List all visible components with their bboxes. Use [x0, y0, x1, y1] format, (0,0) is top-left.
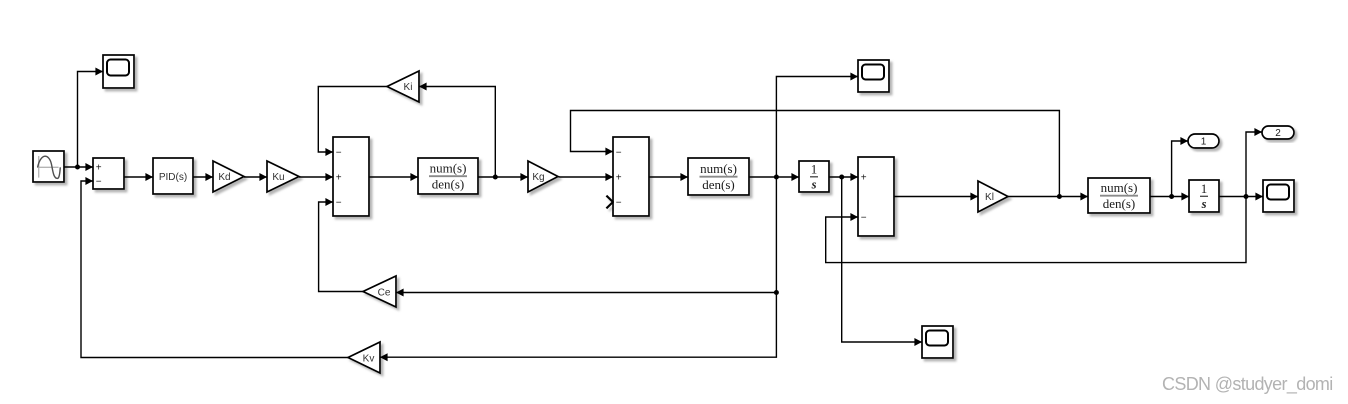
- junction node Kl output: [1057, 194, 1062, 199]
- scope Scope2: [858, 60, 889, 92]
- svg-text:−: −: [616, 148, 622, 159]
- wire Kg to Sum3 plus: [558, 173, 613, 181]
- junction node Int2 output: [1244, 194, 1249, 199]
- wire Int1 junction down to Scope4: [842, 177, 922, 346]
- svg-text:−: −: [861, 213, 867, 224]
- svg-text:CSDN @studyer_domi: CSDN @studyer_domi: [1162, 374, 1333, 395]
- wire Int2 to Scope3: [1219, 193, 1263, 201]
- integrator 1/s Int1: [799, 161, 829, 192]
- watermark text: [1162, 374, 1333, 395]
- svg-text:num(s): num(s): [1101, 180, 1138, 195]
- svg-text:+: +: [96, 163, 102, 174]
- svg-text:1: 1: [1201, 136, 1207, 147]
- svg-text:s: s: [811, 177, 817, 191]
- wire Sum1 to PID: [124, 173, 153, 181]
- wire G3 junction up to outport 1: [1172, 137, 1188, 197]
- junction node G2 output: [774, 175, 779, 180]
- svg-text:num(s): num(s): [430, 161, 467, 176]
- wire G1 to Kg: [478, 173, 528, 181]
- wire G2 to Int1: [749, 173, 799, 181]
- wire Sum2 to G1: [369, 173, 418, 181]
- svg-text:Kg: Kg: [532, 172, 544, 183]
- wire G2 junction up to Scope2: [776, 73, 858, 178]
- sine wave source: [33, 151, 64, 182]
- scope Scope4: [922, 326, 953, 358]
- svg-text:den(s): den(s): [432, 176, 465, 191]
- wire Kd to Ku: [244, 173, 267, 181]
- svg-text:+: +: [336, 173, 342, 184]
- wire Sum4 to Kl: [894, 193, 978, 201]
- wire Sum3 to G2: [649, 173, 688, 181]
- svg-text:Ki: Ki: [404, 82, 413, 93]
- gain Kv (feedback): [348, 342, 380, 373]
- wire Ki output to Sum2 top minus: [318, 87, 387, 157]
- wire Ku to Sum2 plus: [299, 173, 333, 181]
- wire G3 to Int2: [1150, 193, 1189, 201]
- gain Ku: [267, 161, 299, 192]
- svg-text:−: −: [96, 177, 102, 188]
- svg-text:2: 2: [1275, 128, 1281, 139]
- gain Kg: [528, 161, 558, 192]
- svg-text:s: s: [1201, 197, 1207, 211]
- sum block Sum3: [606, 137, 649, 216]
- outport 1: [1188, 134, 1219, 148]
- svg-text:num(s): num(s): [700, 161, 737, 176]
- sum block Sum4: [858, 157, 894, 236]
- sum block Sum2: [333, 137, 369, 216]
- svg-text:+: +: [616, 173, 622, 184]
- wire Kv output to Sum1 minus: [81, 177, 348, 358]
- gain Ce (feedback): [363, 276, 396, 307]
- scope Scope1: [103, 55, 134, 88]
- svg-text:Ce: Ce: [378, 288, 391, 299]
- svg-text:PID(s): PID(s): [159, 172, 187, 183]
- svg-text:Kl: Kl: [985, 192, 994, 203]
- wire Int2 junction down around to Sum4 minus: [826, 197, 1246, 263]
- svg-text:den(s): den(s): [1103, 196, 1136, 211]
- svg-text:Kv: Kv: [363, 354, 375, 365]
- wire Int2 junction up to outport 2: [1246, 128, 1262, 197]
- wire Ce tap to Ce input: [396, 289, 776, 297]
- gain Kd: [213, 161, 244, 192]
- junction node sine output: [75, 165, 80, 170]
- PID controller block PID(s): [153, 158, 193, 194]
- wire Kl junction up to Sum3 top minus: [571, 111, 1060, 197]
- svg-text:−: −: [336, 198, 342, 209]
- sum block Sum1: [93, 158, 124, 189]
- wire Int1 to Sum4 plus: [829, 173, 858, 181]
- svg-text:Kd: Kd: [218, 172, 230, 183]
- gain Kl: [978, 181, 1008, 212]
- gain Ki (feedback): [387, 71, 419, 102]
- transfer fcn num(s)/den(s) G2: [688, 158, 749, 195]
- integrator 1/s Int2: [1189, 180, 1219, 212]
- svg-text:1: 1: [811, 162, 818, 177]
- wire Kl to G3: [1008, 193, 1088, 201]
- svg-text:−: −: [336, 148, 342, 159]
- transfer fcn num(s)/den(s) G1: [418, 158, 478, 194]
- wire G1 junction up to Ki input: [419, 83, 495, 178]
- svg-text:den(s): den(s): [702, 177, 735, 192]
- wire PID to Kd: [193, 173, 213, 181]
- scope Scope3: [1263, 180, 1294, 212]
- wire Ce output to Sum2 bottom minus: [319, 198, 363, 292]
- svg-text:1: 1: [1201, 181, 1208, 196]
- wire junction up to Scope1: [78, 68, 104, 168]
- junction node G3 output: [1169, 194, 1174, 199]
- wire G2 junction down to Kv line: [380, 177, 776, 361]
- wire sine to Sum1 plus: [64, 163, 93, 171]
- transfer fcn num(s)/den(s) G3: [1088, 178, 1150, 213]
- svg-text:+: +: [861, 173, 867, 184]
- junction node G1 output: [493, 175, 498, 180]
- svg-text:−: −: [616, 198, 622, 209]
- junction node Int1 output: [839, 175, 844, 180]
- junction node Ce tap: [774, 290, 779, 295]
- outport 2: [1262, 126, 1294, 139]
- svg-text:Ku: Ku: [272, 172, 284, 183]
